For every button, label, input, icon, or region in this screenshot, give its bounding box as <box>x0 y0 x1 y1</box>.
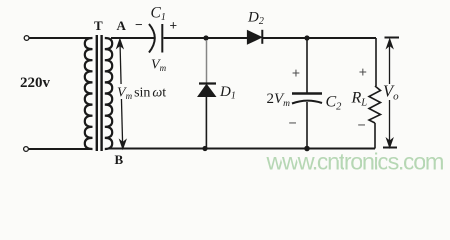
svg-text:−: − <box>358 117 366 133</box>
terminal top-left <box>24 36 29 41</box>
svg-text:220v: 220v <box>20 75 51 91</box>
capacitor C1 <box>149 24 155 53</box>
capacitor C2 branch wire bottom <box>306 102 308 149</box>
output Vo arrow <box>387 40 393 148</box>
wire D2 to RL corner <box>262 37 376 39</box>
svg-text:+: + <box>292 65 300 81</box>
diode D1 <box>199 82 216 84</box>
output Vo arrow bottom bar <box>383 147 397 149</box>
svg-text:−: − <box>135 17 143 32</box>
node junction at D1 top <box>203 35 208 40</box>
terminal bottom-left <box>24 147 29 152</box>
resistor RL zigzag <box>369 86 381 123</box>
transformer secondary winding <box>105 38 112 149</box>
capacitor C2 <box>292 92 322 95</box>
svg-text:+: + <box>359 64 367 80</box>
label Vm sin wt <box>117 84 167 101</box>
svg-text:www.cntronics.com: www.cntronics.com <box>266 149 445 175</box>
resistor RL branch wire top <box>375 38 377 86</box>
wire A to C1 <box>111 37 154 39</box>
resistor RL branch wire bottom <box>374 123 376 149</box>
transformer T primary winding <box>85 38 93 149</box>
node junction at D1 bottom <box>202 146 207 151</box>
svg-text:+: + <box>170 18 178 33</box>
wire C1 to D2 <box>164 37 249 39</box>
diode D1 branch wire bottom <box>205 96 207 149</box>
capacitor C2 branch wire top <box>306 38 308 93</box>
svg-text:Vmsinωt: Vmsinωt <box>117 86 166 102</box>
diode D2 <box>247 31 261 44</box>
wire primary bottom <box>29 148 91 150</box>
svg-text:−: − <box>289 115 297 131</box>
transformer core <box>96 35 98 151</box>
diode D1 branch wire top <box>206 40 208 84</box>
svg-text:B: B <box>115 152 124 167</box>
secondary voltage arrow (double-headed) <box>117 40 126 149</box>
wire primary top <box>29 37 91 39</box>
node junction at C2 top <box>304 35 309 40</box>
svg-text:A: A <box>117 18 127 33</box>
node junction at C2 bottom <box>304 146 310 152</box>
bottom wire <box>108 148 375 150</box>
output Vo arrow top bar <box>385 37 400 39</box>
svg-text:T: T <box>94 18 103 33</box>
